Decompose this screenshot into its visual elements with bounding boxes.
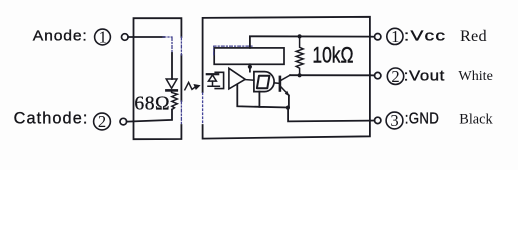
terminal vout xyxy=(370,74,375,76)
wire cathode to resistor xyxy=(127,110,172,122)
pin number 1 left xyxy=(95,28,111,47)
junction stub xyxy=(248,65,252,69)
transistor Q1 xyxy=(279,77,282,91)
pin 2 right xyxy=(387,67,403,86)
receiver box dashed window edge xyxy=(202,93,204,125)
vout wire xyxy=(290,74,370,76)
ic block dash-dot overlay xyxy=(214,46,253,55)
svg-text:2: 2 xyxy=(391,67,399,86)
resistor 68ohm xyxy=(172,90,178,109)
junction vout-10k xyxy=(298,73,302,77)
photodiode PD xyxy=(207,73,218,75)
svg-text:3: 3 xyxy=(390,111,398,130)
receiver box xyxy=(203,17,370,139)
pin number 2 left xyxy=(94,112,111,131)
svg-text:Black: Black xyxy=(459,111,493,127)
svg-text:Anode:: Anode: xyxy=(33,28,88,44)
photodiode bracket xyxy=(215,72,223,88)
light arrow xyxy=(185,82,201,90)
vcc rail xyxy=(250,36,370,48)
dash-dot wire into LED branch xyxy=(163,37,172,53)
svg-text::Vout: :Vout xyxy=(404,68,445,84)
gnd wire to pin3 xyxy=(288,108,370,122)
svg-text:10kΩ: 10kΩ xyxy=(312,44,353,68)
wire amp to schmitt xyxy=(245,79,254,82)
wire anode to box xyxy=(128,36,164,38)
terminal gnd xyxy=(370,120,375,122)
terminal vcc xyxy=(370,36,375,38)
pin 1 right xyxy=(387,27,403,46)
terminal cathode xyxy=(120,118,127,125)
emitter box dashed window edge xyxy=(180,37,182,125)
svg-text:Cathode:: Cathode: xyxy=(14,110,89,128)
resistor R1 10k xyxy=(296,36,303,75)
svg-text:1: 1 xyxy=(391,27,399,46)
ic block xyxy=(214,48,284,64)
svg-text:68Ω: 68Ω xyxy=(134,94,170,115)
terminal anode xyxy=(122,34,129,41)
svg-text:2: 2 xyxy=(98,112,106,131)
svg-text::GND: :GND xyxy=(405,111,440,128)
svg-text::Vcc: :Vcc xyxy=(404,28,446,44)
pin 3 right xyxy=(386,111,403,130)
wire schmitt to base xyxy=(275,82,280,85)
svg-text:1: 1 xyxy=(99,28,107,47)
svg-text:Red: Red xyxy=(460,29,487,46)
schmitt trigger U1 xyxy=(254,72,274,92)
stub block to schmitt xyxy=(249,64,251,71)
LED D1 xyxy=(166,79,177,88)
junction gnd xyxy=(286,106,290,110)
junction vcc-10k xyxy=(298,34,302,38)
gnd bus xyxy=(237,84,288,107)
emitter box xyxy=(134,18,182,139)
hysteresis glyph xyxy=(257,76,270,89)
svg-text:White: White xyxy=(458,68,492,84)
amplifier A1 xyxy=(229,68,245,89)
wire LED anode lead xyxy=(171,53,173,79)
